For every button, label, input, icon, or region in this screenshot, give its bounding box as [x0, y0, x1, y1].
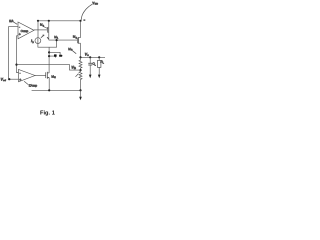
node mid dot 1 [48, 51, 50, 53]
current source Ib [35, 38, 41, 44]
svg-text:L: L [103, 63, 105, 65]
ground arrow below CL [89, 75, 92, 79]
transistor M3 (PMOS) [48, 26, 50, 33]
svg-text:EAmp: EAmp [29, 84, 38, 88]
svg-text:EA: EA [9, 19, 14, 23]
svg-text:ref: ref [3, 80, 6, 82]
resistor R2 (zigzag) [79, 70, 82, 90]
wire Comp output to M3 gate [34, 29, 47, 31]
wire mid vertical branch [48, 47, 50, 73]
node supply dot 3 [79, 20, 81, 22]
wire M2 drain to Vo rail [80, 43, 82, 57]
svg-text:1: 1 [57, 37, 59, 39]
node VDD tick mark [83, 20, 85, 21]
wire Ib bottom to mirror node [38, 40, 57, 47]
resistor R1 (zigzag) [79, 57, 82, 70]
svg-text:+: + [19, 33, 21, 37]
capacitor CL [89, 57, 91, 63]
wire MN source to ground rail [48, 78, 50, 91]
node sense dot [15, 64, 17, 66]
ground arrow below RL [98, 75, 101, 79]
node bottom rail dot R2 [79, 89, 81, 91]
node Vref dot [8, 78, 10, 80]
wire stub upper right [49, 52, 63, 56]
op-amp EA (triangle) [19, 70, 36, 82]
wire EA output to MN gate [35, 75, 46, 77]
wire VDD label leader [81, 4, 92, 20]
wire Vo output rail [81, 56, 106, 58]
wire M3 label leader [43, 26, 48, 29]
wire feedback sense line [17, 65, 81, 71]
label R2 leader [76, 74, 79, 77]
wire EA label leader [14, 22, 17, 24]
transistor M2 pass device (PMOS) [76, 38, 78, 44]
node CL junction dot on Vo rail [89, 56, 91, 58]
wire Comp non-inverting input (feedback sense) [17, 36, 19, 73]
wire M3 source to supply rail [48, 21, 50, 27]
wire bottom rail [32, 89, 81, 91]
node RL junction dot on Vo rail [98, 56, 100, 58]
wire M2 source to supply rail [80, 21, 82, 38]
wire MP label leader [72, 50, 76, 54]
ground arrow below rail [80, 90, 82, 97]
label M5 blob [54, 54, 57, 56]
svg-text:N: N [54, 77, 56, 79]
resistor RL (box) [98, 57, 100, 60]
node Vo dot [79, 56, 81, 58]
svg-text:o: o [87, 54, 89, 57]
svg-text:Comp: Comp [21, 29, 29, 33]
transistor MN (NMOS) [45, 72, 47, 78]
label M4 blob [59, 55, 62, 57]
svg-text:-: - [19, 25, 20, 29]
node supply dot 2 [48, 20, 50, 22]
svg-text:Fig. 1: Fig. 1 [40, 111, 55, 117]
svg-text:b: b [32, 41, 34, 44]
node supply dot 1 [37, 20, 39, 22]
svg-text:DD: DD [95, 4, 99, 6]
node gate line dot [56, 39, 58, 41]
wire gate line M3-M2 [49, 39, 78, 41]
op-amp Comp (triangle) [18, 22, 34, 39]
svg-text:L: L [95, 65, 97, 67]
svg-text:-: - [20, 71, 21, 75]
wire top supply rail [38, 20, 81, 22]
node bottom rail dot MN [48, 89, 50, 91]
wire EAmp label leader [24, 81, 28, 84]
svg-text:+: + [19, 78, 21, 82]
wire Comp inverting input to Vref net [9, 27, 18, 80]
wire Vref to EA + input [8, 78, 19, 80]
wire Ib top to supply rail [37, 21, 39, 38]
node mid dot 2 [48, 55, 50, 57]
wire stub lower [49, 56, 55, 58]
node feedback tap dot [79, 69, 81, 71]
